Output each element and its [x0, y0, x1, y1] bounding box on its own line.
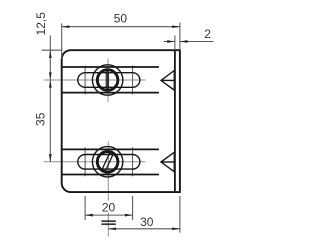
svg-text:35: 35 [34, 112, 48, 126]
svg-text:30: 30 [140, 215, 154, 229]
svg-text:20: 20 [102, 200, 116, 214]
svg-text:12,5: 12,5 [34, 12, 48, 36]
svg-text:50: 50 [114, 12, 128, 26]
svg-text:2: 2 [204, 27, 211, 41]
